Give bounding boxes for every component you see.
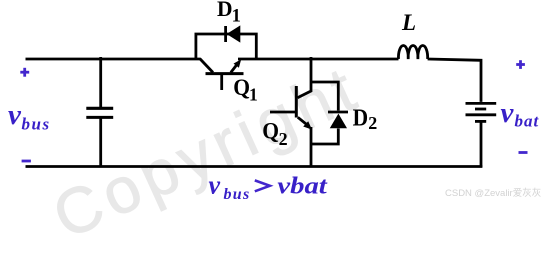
svg-text:D: D [353,106,369,132]
svg-text:v: v [8,99,22,131]
svg-text:2: 2 [368,113,377,133]
svg-text:1: 1 [232,6,241,26]
svg-text:bus: bus [22,115,51,134]
svg-text:D: D [217,0,233,21]
svg-text:bus: bus [224,186,251,203]
svg-text:vbat: vbat [277,173,328,200]
svg-text:2: 2 [279,129,288,149]
svg-text:Q: Q [262,119,279,145]
svg-text:Q: Q [233,75,250,101]
svg-text:bat: bat [515,111,540,130]
svg-text:L: L [401,10,416,35]
svg-text:v: v [209,170,221,199]
svg-text:1: 1 [249,84,258,104]
svg-text:v: v [501,97,515,129]
